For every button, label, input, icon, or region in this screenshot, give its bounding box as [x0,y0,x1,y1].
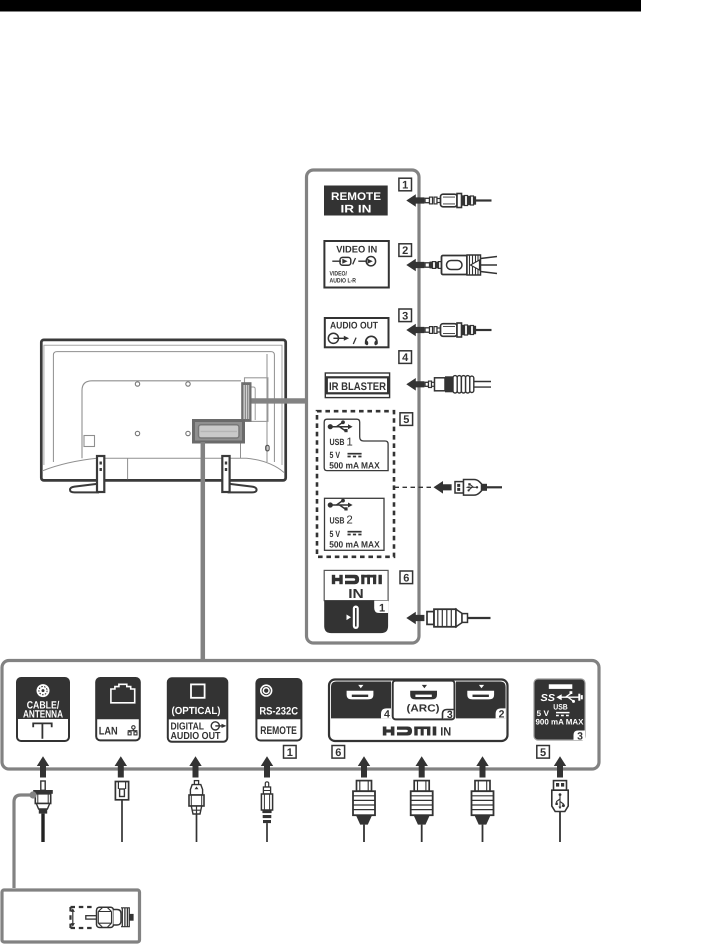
svg-text:(ARC): (ARC) [407,704,440,715]
svg-text:RS-232C: RS-232C [259,705,298,717]
svg-text:IR IN: IR IN [341,204,372,216]
svg-text:2: 2 [346,515,352,527]
svg-text:5: 5 [403,414,409,426]
svg-text:VIDEO/: VIDEO/ [330,271,348,278]
svg-text:REMOTE: REMOTE [260,725,297,737]
svg-text:3: 3 [577,730,583,742]
svg-text:IN: IN [440,724,451,738]
svg-text:2: 2 [402,245,408,257]
svg-text:4: 4 [402,352,409,364]
svg-text:6: 6 [403,572,409,584]
svg-text:IN: IN [348,586,364,601]
svg-text:1: 1 [379,603,385,615]
svg-text:AUDIO OUT: AUDIO OUT [171,731,222,742]
svg-text:3: 3 [447,709,453,721]
svg-text:1: 1 [287,747,293,759]
svg-text:3: 3 [402,310,408,322]
svg-text:5: 5 [540,747,546,759]
svg-text:1: 1 [402,180,408,192]
svg-text:USB: USB [553,703,568,712]
svg-text:VIDEO IN: VIDEO IN [336,245,377,256]
svg-text:5 V: 5 V [330,529,341,539]
svg-text:AUDIO OUT: AUDIO OUT [330,320,378,331]
svg-text:2: 2 [499,709,505,721]
svg-text:500 mA MAX: 500 mA MAX [329,460,380,470]
svg-text:AUDIO L-R: AUDIO L-R [330,278,357,285]
svg-text:IR BLASTER: IR BLASTER [329,381,386,393]
svg-text:USB: USB [330,437,345,447]
svg-text:900 mA MAX: 900 mA MAX [536,717,585,726]
svg-text:500 mA MAX: 500 mA MAX [329,539,380,549]
svg-text:REMOTE: REMOTE [331,191,381,203]
svg-text:1: 1 [346,436,352,448]
svg-text:5 V: 5 V [330,450,341,460]
svg-text:(OPTICAL): (OPTICAL) [172,706,221,717]
svg-text:ANTENNA: ANTENNA [23,708,63,720]
svg-text:6: 6 [335,747,341,759]
svg-text:LAN: LAN [99,726,118,738]
svg-text:4: 4 [384,709,390,721]
svg-text:USB: USB [330,515,345,525]
